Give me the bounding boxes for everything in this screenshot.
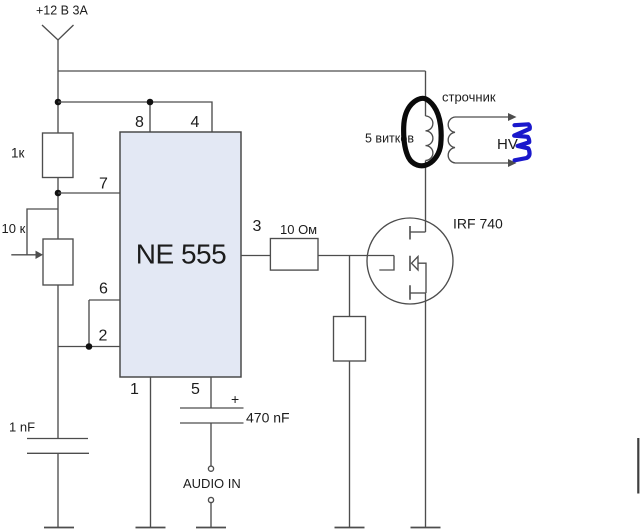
wire branch to pulldown resistor	[349, 256, 351, 317]
wire secondary top lead	[455, 116, 511, 118]
MOSFET Q1 drain stub	[410, 231, 426, 233]
IC U1 NE555 body	[120, 132, 241, 377]
wire C2 to audio terminal	[210, 423, 212, 466]
wire rail pot to C1	[57, 285, 59, 439]
wire pin 1 to ground	[150, 377, 152, 527]
wire R2 to gate	[318, 255, 394, 257]
terminal circle lower	[208, 497, 213, 502]
node junction supply rail	[55, 99, 62, 106]
wire pin 6	[89, 300, 120, 347]
potentiometer wiper tie to rail	[27, 209, 58, 255]
svg-text:1: 1	[130, 381, 139, 398]
wire rail between R1 and pot	[57, 178, 59, 240]
svg-text:10 Ом: 10 Ом	[280, 222, 317, 237]
svg-text:HV: HV	[497, 136, 518, 153]
transformer T1 primary winding	[426, 116, 433, 160]
blue HV scribble	[514, 124, 530, 160]
svg-text:2: 2	[99, 328, 108, 345]
transformer T1 secondary winding	[448, 117, 455, 163]
svg-text:IRF 740: IRF 740	[453, 216, 503, 232]
wire C1 to ground	[57, 453, 59, 527]
MOSFET Q1 body-source link	[418, 263, 426, 293]
svg-text:AUDIO IN: AUDIO IN	[183, 476, 241, 491]
node junction pins 2-6	[86, 343, 93, 350]
ground under source	[411, 527, 441, 529]
svg-text:6: 6	[99, 281, 108, 298]
resistor R2 10 Ом	[270, 239, 318, 271]
svg-text:10 к: 10 к	[2, 221, 26, 236]
MOSFET Q1 channel bars	[409, 226, 411, 300]
MOSFET Q1 substrate arrow	[412, 257, 419, 271]
svg-text:+12 В 3А: +12 В 3А	[36, 4, 88, 18]
svg-text:3: 3	[253, 218, 262, 235]
ground under C1	[44, 527, 74, 529]
wire source to ground	[425, 293, 427, 527]
wire pin 2	[58, 346, 120, 348]
resistor R3 gate pulldown	[334, 317, 366, 362]
potentiometer wiper arrow	[11, 254, 37, 256]
MOSFET Q1 source stub	[410, 292, 426, 294]
MOSFET Q1 gate electrode	[379, 256, 394, 271]
svg-text:строчник: строчник	[442, 90, 496, 105]
wire pin 3 to R2	[241, 255, 270, 257]
svg-text:NE 555: NE 555	[136, 239, 226, 270]
resistor R1 1к	[43, 133, 74, 178]
right edge artifact line	[637, 438, 639, 494]
capacitor C1 1 nF	[27, 439, 89, 454]
arrowhead secondary bottom	[508, 159, 517, 167]
svg-text:470 nF: 470 nF	[246, 410, 290, 426]
svg-text:+: +	[231, 391, 239, 407]
node junction pin 8	[147, 99, 154, 106]
node junction pin 7	[55, 190, 62, 197]
wire top rail down to primary	[425, 71, 427, 116]
wire vcc rail to pin 4	[58, 102, 212, 132]
svg-text:4: 4	[191, 114, 200, 131]
potentiometer RV1 10 к body	[43, 239, 73, 285]
ground under pin 1	[136, 527, 166, 529]
wire drain up to transformer	[425, 161, 427, 233]
supply antenna symbol	[42, 25, 74, 40]
terminal circle upper	[208, 466, 213, 471]
capacitor C2 470 nF	[180, 408, 244, 423]
ground under audio	[196, 527, 226, 529]
wire top rail	[58, 70, 426, 72]
svg-text:1 nF: 1 nF	[9, 420, 35, 435]
hand-drawn marker circle around primary	[404, 98, 442, 165]
wire supply stem	[57, 40, 59, 133]
MOSFET Q1 body circle	[367, 218, 453, 304]
wire secondary bottom lead	[455, 162, 511, 164]
wire pin 7	[58, 192, 120, 194]
ground under R3	[335, 527, 365, 529]
svg-text:5: 5	[191, 381, 200, 398]
arrowhead secondary top	[508, 113, 517, 121]
wire pin 8 drop	[149, 102, 151, 132]
wire audio terminal to ground	[210, 503, 212, 527]
svg-text:1к: 1к	[11, 146, 25, 161]
wire R3 to ground	[349, 361, 351, 527]
svg-text:7: 7	[99, 176, 108, 193]
svg-text:8: 8	[135, 114, 144, 131]
wire pin 5 to C2	[210, 377, 212, 408]
